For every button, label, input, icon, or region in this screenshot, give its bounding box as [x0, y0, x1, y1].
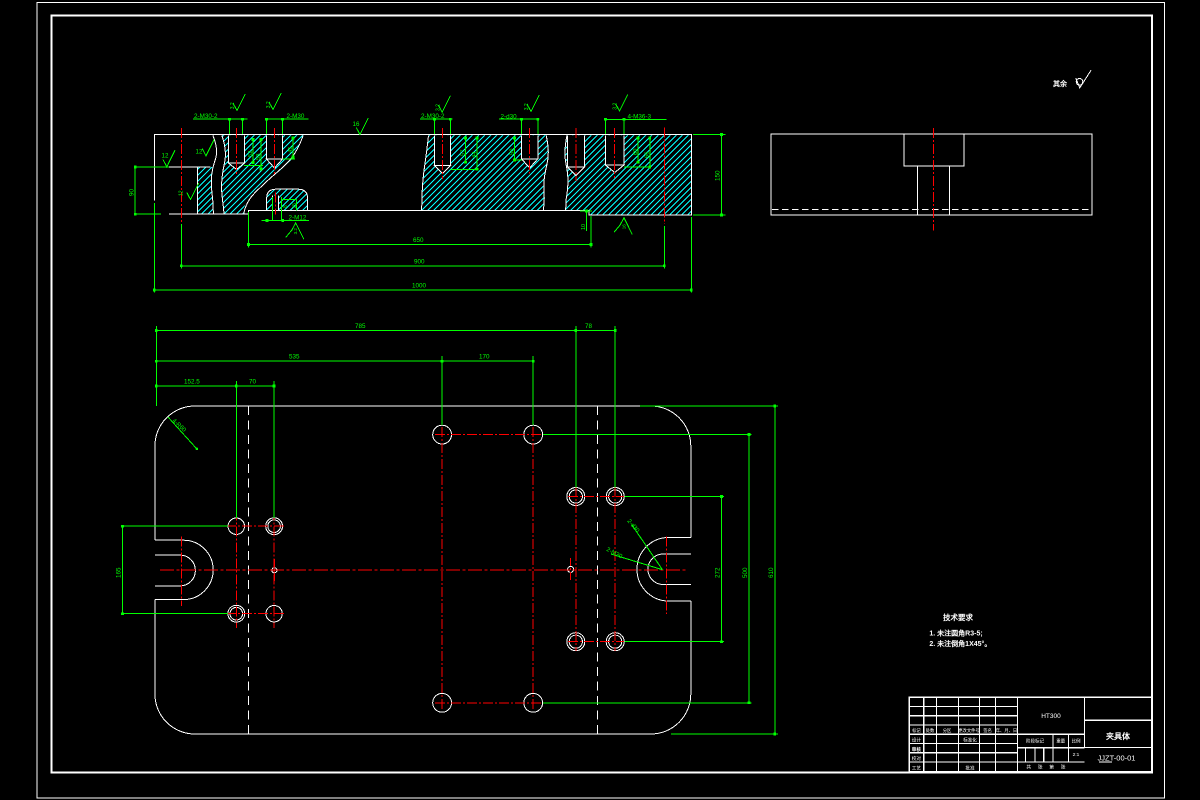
- label 2-M12: [261, 220, 309, 222]
- plan extension lines: [155, 326, 157, 406]
- dimension 500: [748, 435, 750, 703]
- dimension 1000: [154, 289, 691, 291]
- svg-text:第: 第: [1049, 764, 1054, 771]
- svg-text:170: 170: [479, 354, 490, 361]
- dimension 535: [156, 360, 442, 362]
- svg-text:1. 未注圆角R3-5;: 1. 未注圆角R3-5;: [929, 629, 982, 638]
- M12 hole in boss: [273, 196, 279, 211]
- dimension 170: [442, 360, 533, 362]
- red centerline: [529, 128, 531, 174]
- plan small hole crosses: [273, 559, 275, 581]
- dimension 78: [576, 329, 615, 331]
- dimension 70: [236, 385, 274, 387]
- title block grid: [909, 706, 1017, 708]
- svg-text:57: 57: [460, 150, 466, 156]
- red centerline: [441, 128, 443, 179]
- depth dim 57: [465, 138, 467, 162]
- plan centre hole group: [433, 425, 452, 444]
- svg-text:78: 78: [585, 323, 593, 330]
- svg-text:签名: 签名: [983, 727, 992, 734]
- svg-text:2-M12: 2-M12: [289, 214, 307, 221]
- svg-text:12: 12: [196, 149, 203, 156]
- svg-text:2-M30-2: 2-M30-2: [194, 113, 218, 120]
- dimension 2-M30: [266, 118, 309, 120]
- section boundary curve PR: [422, 135, 429, 210]
- section boundary curve SR: [222, 135, 226, 214]
- svg-text:比例: 比例: [1072, 738, 1081, 745]
- svg-text:52: 52: [248, 151, 254, 157]
- svg-text:785: 785: [355, 323, 366, 330]
- plan red lines left cluster: [235, 511, 237, 629]
- label 2-M30 leader: [611, 554, 662, 570]
- svg-text:校对: 校对: [912, 755, 922, 762]
- surface finish symbol inverted: [620, 218, 632, 235]
- depth dim 66: [649, 138, 651, 167]
- dimension 2-M30-2 left: [193, 118, 248, 120]
- plan dashed lines: [248, 406, 250, 734]
- surface symbol lower-left: [187, 183, 199, 200]
- boss outline: [267, 189, 308, 210]
- section boundary curve SR2: [565, 135, 568, 210]
- plan red lines centre cluster: [441, 427, 443, 709]
- plan left hole group: [228, 518, 244, 534]
- side view slot walls: [917, 166, 919, 215]
- svg-text:535: 535: [289, 354, 300, 361]
- svg-text:60: 60: [633, 149, 639, 155]
- dimension 2-M30-2 right: [420, 118, 453, 120]
- svg-text:共: 共: [1026, 764, 1031, 771]
- section body outline: [154, 135, 691, 215]
- svg-text:3.2: 3.2: [266, 101, 272, 108]
- svg-text:技术要求: 技术要求: [943, 612, 973, 622]
- svg-text:45: 45: [288, 147, 294, 153]
- svg-text:10: 10: [581, 224, 587, 230]
- depth dim 50: [514, 138, 516, 160]
- svg-text:12: 12: [162, 153, 169, 160]
- svg-text:批准: 批准: [965, 764, 975, 771]
- dimension 4-M36-3: [605, 119, 667, 121]
- svg-text:3.2: 3.2: [435, 104, 441, 111]
- svg-text:2-M30-2: 2-M30-2: [421, 113, 445, 120]
- svg-text:15: 15: [292, 203, 298, 209]
- svg-text:3.2: 3.2: [524, 103, 530, 110]
- plan red lines left slot: [180, 537, 182, 606]
- svg-text:重量: 重量: [1056, 738, 1065, 745]
- svg-text:设计: 设计: [912, 737, 922, 744]
- red centerline: [663, 128, 665, 225]
- dimension 272: [720, 497, 722, 642]
- svg-text:工艺: 工艺: [912, 765, 922, 770]
- dimension 152.5: [156, 385, 236, 387]
- svg-text:3.2: 3.2: [293, 228, 298, 235]
- svg-text:272: 272: [715, 567, 722, 578]
- dimension 150 right: [720, 135, 722, 215]
- section boundary curve PL: [244, 135, 304, 214]
- svg-text:2-M30: 2-M30: [287, 113, 305, 120]
- svg-text:152.5: 152.5: [184, 378, 200, 385]
- tapped hole 4 in section: [522, 135, 538, 159]
- depth dim 44: [476, 138, 478, 169]
- svg-text:16: 16: [353, 121, 360, 128]
- red centerline: [275, 193, 277, 215]
- svg-text:150: 150: [715, 170, 722, 181]
- plan right hole group: [567, 488, 585, 506]
- svg-text:标记: 标记: [912, 727, 921, 734]
- section hatch left wall: [197, 167, 199, 214]
- svg-text:3.2: 3.2: [613, 103, 619, 110]
- svg-text:66: 66: [645, 152, 651, 158]
- svg-text:90: 90: [129, 188, 136, 196]
- tapped hole 2 in section: [267, 135, 283, 159]
- svg-text:其余: 其余: [1053, 79, 1068, 88]
- red centerline: [180, 128, 182, 222]
- tapped hole 5 in section: [568, 135, 585, 167]
- side view dashed recess line: [772, 209, 1091, 211]
- svg-text:张: 张: [1038, 764, 1043, 771]
- tapped hole 3 in section: [435, 135, 451, 165]
- surface finish symbol: [527, 95, 539, 112]
- dimension 2-d30: [499, 118, 540, 120]
- depth dim 60: [637, 138, 639, 162]
- svg-text:1000: 1000: [412, 283, 427, 290]
- dimension 650: [249, 244, 592, 246]
- boss inner dims 8 15: [282, 199, 297, 201]
- surface finish symbol: [233, 94, 245, 111]
- dimension 90 left: [134, 167, 136, 214]
- tapped hole 1 in section: [229, 135, 245, 163]
- red centerline: [575, 128, 577, 181]
- plan plate outline: [195, 405, 651, 407]
- surface finish symbol: [269, 93, 281, 110]
- svg-text:张: 张: [1061, 764, 1066, 771]
- surface finish symbol: [438, 96, 450, 113]
- section boundary curve SL2: [544, 135, 549, 210]
- svg-text:500: 500: [742, 567, 749, 578]
- svg-text:夹具体: 夹具体: [1106, 731, 1131, 741]
- svg-text:HT300: HT300: [1041, 713, 1061, 720]
- plan red lines right slot: [665, 537, 667, 615]
- title block frame: [909, 697, 1152, 772]
- svg-text:年、月、日: 年、月、日: [996, 727, 1017, 734]
- svg-text:JJZT-00-01: JJZT-00-01: [1098, 754, 1136, 763]
- svg-text:阶段标记: 阶段标记: [1026, 738, 1044, 745]
- depth dim 45: [292, 138, 294, 157]
- svg-text:标准化: 标准化: [963, 737, 977, 744]
- svg-text:3.2: 3.2: [230, 102, 236, 109]
- depth dim 58: [260, 140, 262, 170]
- svg-text:2. 未注倒角1X45°。: 2. 未注倒角1X45°。: [929, 639, 991, 648]
- svg-text:16: 16: [622, 224, 627, 230]
- plan main red centerline: [160, 569, 686, 571]
- svg-text:8: 8: [283, 205, 289, 208]
- svg-text:更改文件号: 更改文件号: [958, 727, 979, 734]
- surface symbol 16 top edge: [356, 118, 368, 135]
- svg-text:4-M36-3: 4-M36-3: [628, 113, 652, 120]
- side view body rectangle: [771, 134, 1092, 215]
- dimension 10 step: [586, 211, 588, 232]
- svg-text:审核: 审核: [912, 746, 922, 753]
- surface symbol 12 left outside: [163, 150, 175, 167]
- dimension 610: [774, 406, 776, 734]
- plan left slot: [155, 540, 213, 599]
- svg-text:165: 165: [116, 567, 123, 578]
- svg-text:2:1: 2:1: [1073, 752, 1080, 758]
- surface symbol 12 in block: [202, 139, 214, 156]
- side view red centerline: [933, 128, 935, 230]
- svg-text:处数: 处数: [926, 727, 935, 734]
- section internal step line: [169, 166, 210, 168]
- dimension 900: [181, 265, 664, 267]
- side view notch: [904, 134, 964, 166]
- svg-text:70: 70: [249, 378, 257, 385]
- surface finish symbol: [616, 95, 628, 112]
- svg-text:50: 50: [509, 149, 515, 155]
- plan red lines right cluster: [575, 487, 577, 651]
- svg-text:900: 900: [414, 258, 425, 265]
- svg-text:650: 650: [413, 237, 424, 244]
- svg-text:12: 12: [179, 190, 185, 196]
- section boundary curve SL: [211, 135, 216, 214]
- dimension 165: [121, 526, 123, 614]
- red centerline: [614, 128, 616, 178]
- red centerline: [236, 128, 238, 174]
- svg-text:2-d30: 2-d30: [501, 113, 518, 120]
- svg-text:58: 58: [256, 154, 262, 160]
- dimension 785: [156, 329, 576, 331]
- red centerline: [274, 128, 276, 174]
- depth dim 52: [252, 140, 254, 163]
- svg-text:分区: 分区: [943, 727, 952, 734]
- plan right slot: [637, 538, 691, 602]
- svg-text:610: 610: [768, 567, 775, 578]
- label 2-d30 leader: [632, 525, 662, 570]
- svg-text:44: 44: [472, 151, 478, 158]
- surface finish symbol inverted: [292, 223, 304, 240]
- tapped hole 6 in section: [606, 135, 625, 165]
- plan small holes: [272, 568, 277, 573]
